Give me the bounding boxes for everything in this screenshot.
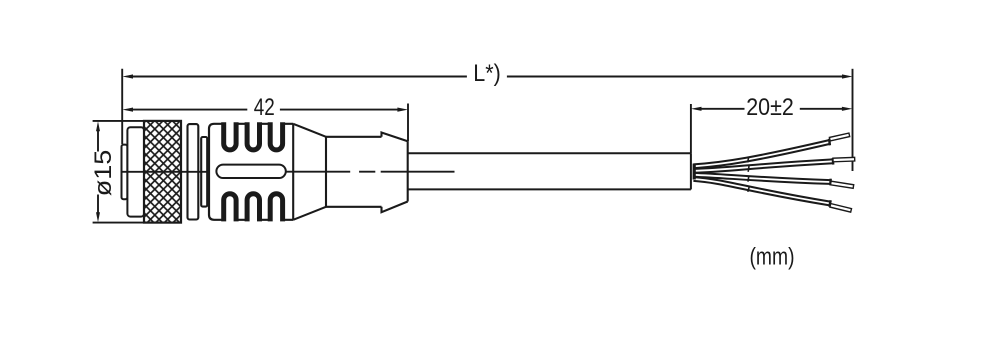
dimension ø15 line lower segment — [97, 195, 99, 215]
ø15 extension tick bottom — [93, 222, 144, 224]
taper bottom edge — [293, 207, 326, 220]
wire 2 — [694, 161, 834, 171]
connector band2 — [127, 127, 144, 216]
insulation end tick wire 4 — [829, 200, 830, 207]
strain relief fin top 3 — [270, 122, 282, 150]
stripped tip wire 3 — [831, 181, 854, 188]
insulation end tick wire 1 — [828, 139, 831, 146]
bell right edge — [407, 141, 409, 201]
strain relief fin top 1 — [224, 122, 236, 150]
extension line 20±2 left (x=691) — [690, 104, 692, 153]
dimension 42 line left segment — [130, 109, 247, 111]
arrow 20±2 left — [691, 107, 702, 111]
taper top edge — [293, 124, 326, 137]
extension line 42 right / bell edge (x=408) — [407, 104, 409, 142]
centerline solid through connector front — [122, 171, 209, 173]
arrow L left — [122, 74, 133, 78]
cylinder bottom edge — [326, 206, 382, 208]
wire bundle tick — [693, 164, 696, 180]
wire joint tick 3 — [747, 176, 750, 182]
ring B — [201, 137, 207, 207]
arrow 42 right — [397, 108, 408, 112]
wire 3 — [694, 175, 831, 182]
dimension ø15 line upper segment — [97, 129, 99, 152]
centerline dash 3 — [381, 171, 455, 173]
wire joint tick 4 — [748, 186, 750, 192]
stripped tip wire 2 — [833, 157, 855, 161]
dimension 20±2 line left segment — [698, 108, 745, 110]
arrow ø15 top — [96, 121, 100, 131]
ring A — [188, 124, 199, 219]
knurled coupling nut — [144, 121, 181, 223]
extension line right (x=852.5) — [852, 69, 854, 171]
cable bottom edge — [408, 188, 691, 190]
cylinder top edge — [326, 136, 382, 138]
insulation end tick wire 3 — [829, 179, 832, 186]
cable end edge — [690, 153, 692, 189]
dimension 20±2 line right segment — [800, 108, 845, 110]
centerline dash 1 — [286, 171, 350, 173]
wire joint tick 2 — [747, 166, 750, 172]
stripped tip wire 1 — [829, 133, 849, 141]
bell left edge — [382, 133, 408, 213]
connector body — [209, 124, 293, 220]
body/taper edge line — [292, 124, 294, 220]
arrow L right — [842, 74, 853, 78]
taper/cylinder edge line — [325, 137, 327, 207]
body slot (rounded) — [216, 165, 285, 178]
strain relief fin bottom 2 — [247, 194, 259, 222]
strain relief fin top 2 — [247, 122, 259, 150]
svg-text:ø15: ø15 — [90, 150, 117, 197]
svg-text:20±2: 20±2 — [746, 94, 794, 121]
wire 1 — [694, 142, 830, 166]
svg-text:(mm): (mm) — [750, 244, 795, 271]
arrow 42 left — [122, 108, 133, 112]
dimension 42 line right segment — [280, 109, 401, 111]
svg-text:L*): L*) — [473, 60, 501, 87]
wire 4 — [694, 179, 831, 204]
insulation end tick wire 2 — [832, 158, 835, 165]
dimension L line left segment — [130, 76, 467, 78]
wire joint tick 1 — [748, 157, 749, 163]
dimension L line right segment — [507, 76, 845, 78]
arrow ø15 bottom — [96, 212, 100, 222]
arrow 20±2 right — [842, 107, 853, 111]
extension line left (x=122.4) — [121, 69, 123, 144]
stripped tip wire 4 — [830, 204, 852, 213]
centerline dash 2 — [359, 171, 375, 173]
strain relief fin bottom 3 — [270, 194, 282, 222]
svg-text:42: 42 — [254, 94, 275, 121]
connector nose band1 — [122, 145, 128, 200]
ø15 extension tick top — [93, 120, 144, 122]
cable top edge — [408, 152, 691, 154]
strain relief fin bottom 1 — [224, 194, 236, 222]
